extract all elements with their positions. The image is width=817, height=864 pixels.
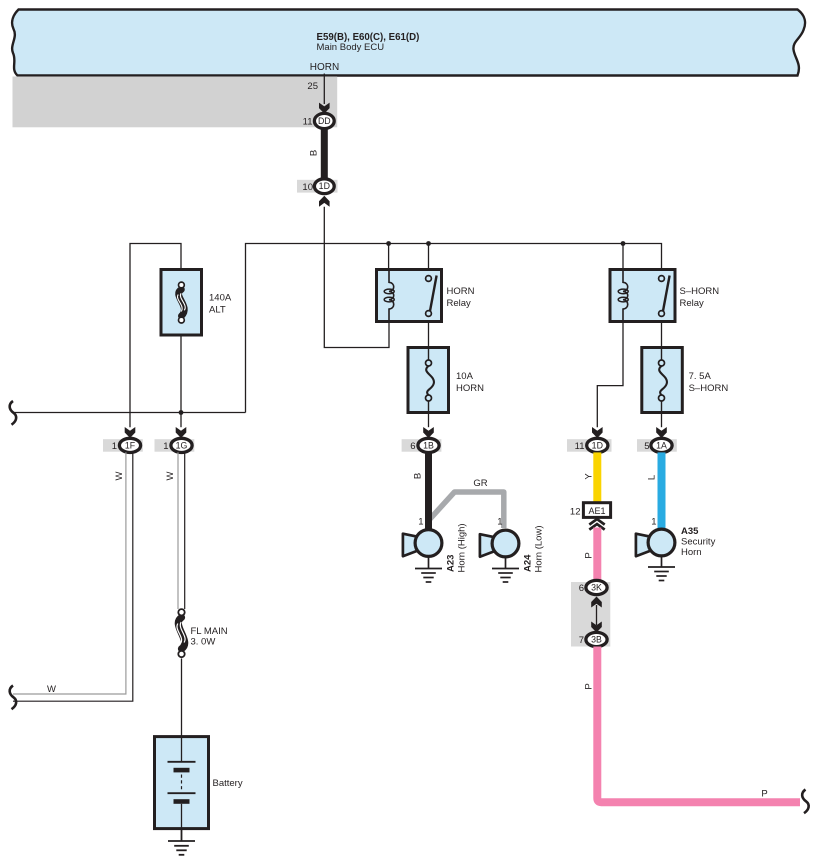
- node junction at HORN relay coil: [386, 241, 391, 246]
- svg-text:1D: 1D: [319, 181, 330, 191]
- svg-text:25: 25: [307, 81, 318, 92]
- svg-text:W: W: [47, 684, 56, 695]
- arrow into 1D(11): [592, 427, 603, 438]
- svg-text:1G: 1G: [176, 440, 188, 450]
- svg-text:P: P: [584, 552, 595, 558]
- arrow into 1G: [176, 427, 187, 438]
- svg-text:W: W: [114, 471, 125, 480]
- ground horn A35: [648, 556, 675, 581]
- connector 1F pin 1: [103, 438, 143, 452]
- svg-text:P: P: [584, 683, 595, 689]
- wire W below 1G (double line): [178, 452, 185, 609]
- arrow into DD: [319, 103, 330, 114]
- svg-text:Y: Y: [584, 473, 595, 480]
- ground horn A24: [492, 557, 519, 582]
- connector 1B pin 6: [402, 438, 442, 452]
- wire HORN relay switch top pin: [428, 244, 430, 270]
- arrow up to 3K: [591, 597, 602, 608]
- wire 1D down to HORN relay coil: [324, 207, 389, 348]
- svg-text:6: 6: [410, 441, 415, 452]
- svg-text:Main Body ECU: Main Body ECU: [317, 42, 385, 53]
- svg-text:S–HORN: S–HORN: [680, 286, 720, 297]
- horn A23 Horn (High): [403, 523, 468, 572]
- svg-text:1: 1: [112, 441, 117, 452]
- svg-text:HORN: HORN: [310, 62, 339, 73]
- horn A35 Security Horn: [636, 526, 716, 558]
- node junction at HORN relay switch: [426, 241, 431, 246]
- wire supply rail from 1G riser to S-HORN relay: [246, 244, 662, 413]
- svg-text:B: B: [413, 473, 424, 479]
- svg-text:1: 1: [651, 517, 656, 528]
- svg-text:1F: 1F: [125, 440, 136, 450]
- svg-text:AE1: AE1: [588, 506, 605, 516]
- wire 7.5A fuse to 1A: [661, 413, 663, 428]
- svg-text:A35: A35: [681, 526, 699, 537]
- wire HORN pin 25 to DD: [323, 74, 325, 105]
- svg-text:10A: 10A: [456, 371, 474, 382]
- svg-text:L: L: [647, 475, 658, 480]
- connector 1D pin 11: [567, 438, 612, 452]
- arrow into 1A: [656, 427, 667, 438]
- relay HORN: [377, 270, 475, 322]
- wire P 3B to right edge: [597, 647, 800, 803]
- arrow into 1B: [423, 427, 434, 438]
- svg-text:11: 11: [303, 117, 313, 128]
- connector 3B pin 7: [579, 632, 607, 646]
- svg-text:1: 1: [418, 517, 423, 528]
- wire B (thick black) DD to 1D: [321, 128, 328, 180]
- svg-text:Battery: Battery: [213, 778, 243, 789]
- arrow up into 1D: [319, 196, 330, 207]
- svg-text:3. 0W: 3. 0W: [191, 637, 216, 648]
- svg-text:6: 6: [579, 583, 584, 594]
- svg-text:5: 5: [644, 441, 649, 452]
- svg-text:11: 11: [575, 441, 585, 452]
- node junction at S-HORN relay coil: [621, 241, 626, 246]
- wire P AE1 to 3K: [593, 528, 601, 582]
- wire FL MAIN to battery: [181, 659, 183, 738]
- wire S-HORN coil to 1D: [597, 322, 623, 428]
- svg-text:A24: A24: [522, 554, 533, 572]
- wire Y 1D(11) to AE1: [593, 452, 601, 503]
- wire GR horn high to horn low: [430, 492, 504, 528]
- svg-text:ALT: ALT: [209, 305, 226, 316]
- svg-text:Relay: Relay: [447, 298, 472, 309]
- arrow down to 3B: [591, 622, 602, 633]
- battery: [155, 737, 243, 829]
- svg-text:1B: 1B: [423, 440, 434, 450]
- svg-text:1A: 1A: [656, 440, 667, 450]
- svg-text:140A: 140A: [209, 293, 232, 304]
- svg-text:7: 7: [579, 635, 584, 646]
- wire ALT bottom to 1G: [180, 323, 182, 427]
- svg-text:HORN: HORN: [456, 383, 484, 394]
- ground horn A23: [415, 556, 442, 582]
- wire 10A fuse to 1B: [428, 413, 430, 428]
- chevrons below AE1: [589, 519, 604, 530]
- svg-text:3B: 3B: [591, 635, 602, 645]
- fuse 10A HORN: [408, 348, 484, 413]
- connector AE1 pin 12: [570, 503, 611, 518]
- svg-text:A23: A23: [445, 555, 456, 572]
- svg-text:P: P: [761, 789, 767, 800]
- relay S-HORN: [610, 270, 719, 322]
- svg-text:3K: 3K: [591, 583, 602, 593]
- svg-text:Horn (Low): Horn (Low): [534, 526, 545, 573]
- svg-text:FL MAIN: FL MAIN: [191, 626, 228, 637]
- wire HORN relay switch to 10A fuse: [428, 322, 430, 351]
- fusible link FL MAIN 3.0W: [177, 609, 228, 657]
- wire between 3K and 3B: [596, 605, 598, 625]
- wire W below 1F (double line): [13, 452, 133, 701]
- svg-text:1: 1: [497, 517, 502, 528]
- svg-text:S–HORN: S–HORN: [689, 383, 729, 394]
- svg-text:10: 10: [302, 182, 313, 193]
- svg-text:DD: DD: [318, 116, 331, 126]
- svg-text:HORN: HORN: [447, 286, 475, 297]
- wire HORN relay coil top pin: [388, 244, 390, 270]
- break squiggle right: [802, 790, 809, 814]
- node junction at 1G riser: [179, 410, 184, 415]
- wire S-HORN relay coil top pin: [622, 244, 624, 270]
- wire B 1B to horn A23 (thick): [425, 452, 432, 530]
- svg-text:B: B: [309, 150, 320, 156]
- svg-text:Security: Security: [681, 537, 716, 548]
- wire left rail to 1G riser: [13, 412, 246, 414]
- svg-text:Horn (High): Horn (High): [457, 523, 468, 572]
- svg-text:12: 12: [570, 507, 581, 518]
- gray block 3K/3B: [571, 582, 610, 647]
- connector 1G pin 1: [155, 438, 195, 452]
- Main Body ECU band E59(B),E60(C),E61(D): [12, 10, 805, 76]
- svg-text:GR: GR: [473, 478, 487, 489]
- fuse 7.5A S-HORN: [642, 348, 729, 413]
- svg-text:Relay: Relay: [680, 298, 705, 309]
- connector 3K pin 6: [579, 580, 607, 594]
- svg-text:Horn: Horn: [681, 547, 702, 558]
- wire S-HORN relay switch to 7.5A fuse: [661, 322, 663, 351]
- ground battery: [168, 829, 195, 855]
- ECU shield gray block: [13, 77, 338, 128]
- svg-text:W: W: [165, 471, 176, 480]
- horn A24 Horn (Low): [480, 526, 545, 573]
- connector 1D pin 10: [297, 179, 338, 194]
- break squiggle left lower: [10, 686, 17, 710]
- connector DD pin 11: [303, 113, 335, 128]
- svg-text:1: 1: [163, 441, 168, 452]
- wire L 1A to A35: [658, 452, 666, 530]
- fusible link 140A ALT: [161, 270, 232, 336]
- break squiggle left upper: [10, 401, 17, 425]
- svg-text:7. 5A: 7. 5A: [689, 371, 712, 382]
- wire 1F branch up-over to ALT: [130, 244, 181, 428]
- connector 1A pin 5: [637, 438, 677, 452]
- arrow into 1F: [125, 427, 136, 438]
- svg-text:1D: 1D: [592, 440, 603, 450]
